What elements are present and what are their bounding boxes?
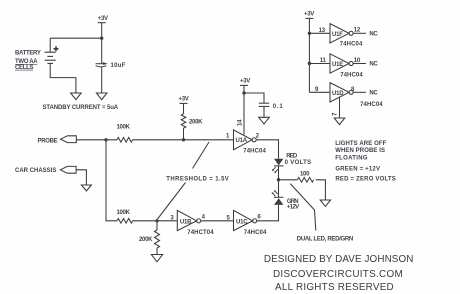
node R2/R4/U1B junction	[155, 219, 158, 222]
ground (R5)	[320, 200, 330, 206]
svg-text:RED = ZERO VOLTS: RED = ZERO VOLTS	[335, 176, 396, 182]
wire rail to U1F	[309, 32, 330, 34]
ground (R4)	[151, 255, 162, 262]
wire rail to U1E	[309, 63, 330, 65]
battery B1	[45, 52, 56, 63]
wire rail to battery	[50, 37, 101, 39]
wire D1 to D2	[278, 166, 280, 197]
svg-text:74HCT04: 74HCT04	[187, 230, 214, 236]
svg-text:+3V: +3V	[240, 78, 250, 84]
wire pin14 to +3V	[243, 85, 245, 134]
svg-text:LIGHTS ARE OFF: LIGHTS ARE OFF	[335, 141, 386, 147]
svg-text:74HC04: 74HC04	[244, 230, 267, 236]
annotation line dual LED	[290, 184, 316, 231]
svg-text:CAR CHASSIS: CAR CHASSIS	[15, 168, 56, 174]
svg-text:14: 14	[238, 119, 244, 126]
wire R4 to ground	[156, 248, 158, 255]
wire U1E output	[353, 63, 366, 65]
svg-text:+12V: +12V	[287, 205, 299, 211]
wire R1 to U1A input	[133, 139, 233, 141]
wire R3 to node	[183, 128, 185, 140]
LED D2 green	[272, 190, 284, 205]
wire R2 to U1B	[133, 220, 178, 222]
svg-text:U1E: U1E	[332, 62, 343, 68]
svg-text:200K: 200K	[139, 237, 153, 243]
svg-text:NC: NC	[369, 91, 378, 97]
svg-text:FLOATING: FLOATING	[335, 156, 368, 162]
op-amp U1C inverter	[234, 210, 257, 230]
wire rail to U1D	[309, 91, 330, 93]
svg-text:200K: 200K	[189, 120, 203, 126]
svg-text:U1B: U1B	[180, 220, 192, 226]
wire node to R4	[156, 221, 158, 230]
svg-text:U1D: U1D	[332, 91, 344, 97]
svg-text:+3V: +3V	[179, 97, 189, 103]
svg-text:4: 4	[202, 215, 206, 221]
svg-text:100K: 100K	[117, 125, 131, 131]
wire D2 to U1C output	[257, 205, 279, 221]
resistor R1 100K	[117, 138, 133, 143]
svg-text:CELLS: CELLS	[15, 65, 33, 71]
ground (U1D pin7)	[334, 118, 345, 125]
wire C2 to ground	[263, 106, 265, 117]
svg-text:WHEN PROBE IS: WHEN PROBE IS	[335, 148, 385, 154]
ground (cap C1)	[96, 93, 107, 100]
svg-text:PROBE: PROBE	[38, 138, 58, 144]
svg-text:DESIGNED BY DAVE JOHNSON: DESIGNED BY DAVE JOHNSON	[264, 254, 414, 265]
capacitor C2 0.1	[259, 103, 269, 106]
op-amp U1A inverter	[234, 130, 257, 150]
wire +3V to C2	[244, 93, 264, 103]
wire U1D output	[353, 91, 366, 93]
svg-text:+3V: +3V	[304, 11, 314, 17]
svg-text:STANDBY CURRENT = 5uA: STANDBY CURRENT = 5uA	[43, 105, 119, 111]
annotation line threshold lower	[158, 183, 186, 220]
svg-text:U1A: U1A	[236, 138, 248, 144]
resistor R4 200K	[155, 230, 160, 248]
svg-text:12: 12	[354, 28, 361, 34]
ground (chassis)	[81, 185, 91, 191]
op-amp U1E inverter	[330, 54, 353, 73]
node R3/U1A junction	[182, 138, 185, 141]
wire U1F output	[353, 32, 366, 34]
battery label	[15, 51, 41, 71]
wire chassis to ground	[76, 170, 86, 185]
probe connector J1	[61, 136, 77, 143]
ground (C2)	[259, 117, 270, 124]
wire cap to ground	[101, 67, 103, 93]
svg-text:U1F: U1F	[332, 32, 343, 38]
resistor R2 100K	[117, 219, 133, 224]
svg-text:DISCOVERCIRCUITS.COM: DISCOVERCIRCUITS.COM	[273, 269, 403, 280]
svg-text:NC: NC	[369, 62, 378, 68]
svg-text:6: 6	[257, 215, 261, 221]
wire probe node down to R2	[106, 140, 117, 221]
power +3V U1A	[240, 84, 248, 86]
svg-text:74HC04: 74HC04	[340, 41, 363, 47]
resistor R5 100	[298, 177, 314, 182]
svg-text:100: 100	[300, 172, 310, 178]
svg-text:10uF: 10uF	[111, 63, 126, 69]
node rail/U1F	[308, 32, 311, 35]
node battery/cap junction	[100, 37, 103, 40]
svg-text:ALL RIGHTS RESERVED: ALL RIGHTS RESERVED	[275, 282, 394, 293]
svg-text:BATTERY: BATTERY	[15, 51, 41, 57]
svg-text:DUAL LED, RED/GRN: DUAL LED, RED/GRN	[297, 236, 353, 242]
car chassis connector J2	[60, 166, 76, 173]
wire probe to R1	[76, 139, 117, 141]
wire battery to ground	[50, 63, 76, 93]
node +3V/C2 junction	[242, 91, 245, 94]
svg-text:GREEN = +12V: GREEN = +12V	[335, 166, 380, 172]
svg-text:74HC04: 74HC04	[340, 73, 363, 79]
op-amp U1F inverter	[330, 24, 353, 43]
svg-text:1: 1	[226, 133, 230, 139]
svg-text:10: 10	[354, 58, 361, 64]
svg-text:7: 7	[333, 112, 339, 116]
wire U1A output to LED	[256, 140, 278, 159]
power +3V R3 rail	[180, 103, 188, 113]
svg-text:+3V: +3V	[98, 16, 108, 22]
wire node to R5	[279, 179, 298, 181]
battery plus sign	[54, 46, 59, 51]
wire R5 to ground	[316, 180, 326, 200]
svg-text:NC: NC	[369, 31, 378, 37]
ground (battery)	[71, 93, 82, 100]
svg-text:2: 2	[256, 133, 260, 139]
annotation line threshold upper	[193, 142, 210, 169]
svg-text:THRESHOLD = 1.5V: THRESHOLD = 1.5V	[166, 177, 229, 183]
resistor R3 200K	[181, 114, 186, 128]
svg-text:0 VOLTS: 0 VOLTS	[285, 160, 312, 166]
svg-text:0.1: 0.1	[273, 104, 284, 110]
wire U1D pin7 to ground	[339, 97, 341, 118]
svg-text:11: 11	[320, 58, 327, 64]
power +3V right rail	[305, 18, 313, 92]
wire U1B to U1C	[201, 220, 234, 222]
op-amp U1D inverter	[330, 83, 353, 102]
svg-text:74HC04: 74HC04	[360, 102, 383, 108]
wire battery top	[49, 38, 51, 52]
svg-text:100K: 100K	[117, 210, 131, 216]
svg-text:RED: RED	[286, 153, 298, 159]
svg-text:13: 13	[319, 28, 326, 34]
node rail/U1E	[308, 62, 311, 65]
op-amp U1B inverter	[177, 210, 200, 230]
svg-text:U1C: U1C	[236, 220, 248, 226]
node probe junction	[104, 138, 107, 141]
svg-text:74HC04: 74HC04	[243, 148, 266, 154]
LED D1 red	[272, 159, 284, 173]
node LED junction	[277, 178, 280, 181]
capacitor C1 10uF	[96, 62, 108, 67]
power +3V battery rail	[98, 23, 106, 64]
